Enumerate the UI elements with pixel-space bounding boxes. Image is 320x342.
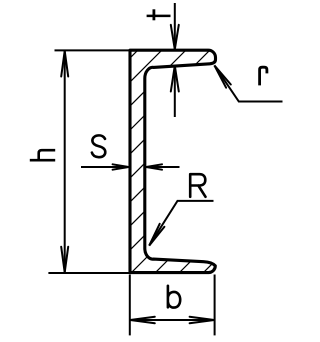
t top arrow [171, 25, 179, 50]
label b (drawn strokes) [168, 286, 180, 308]
label R (drawn strokes) [190, 174, 205, 197]
b right extension line [214, 275, 216, 336]
hatching [0, 40, 320, 285]
b right arrow [190, 317, 215, 323]
label S (drawn strokes) [92, 135, 105, 157]
r leader arrow [214, 65, 230, 87]
S right dimension line [146, 166, 179, 168]
r leader [214, 65, 282, 101]
top extension line [55, 49, 131, 51]
S right arrow [146, 164, 162, 169]
h dimension line [64, 50, 66, 273]
t lower dimension line [174, 66, 176, 117]
S left arrow [113, 164, 129, 169]
bottom extension line [48, 272, 133, 274]
h bottom arrow [61, 247, 68, 273]
t bottom arrow [171, 66, 179, 92]
b left arrow [130, 317, 155, 323]
b left extension line [129, 275, 131, 336]
label r (drawn strokes) [260, 67, 267, 85]
S left dimension line [81, 166, 128, 168]
label h (rotated, drawn strokes) [30, 150, 55, 160]
thin dimension lines [48, 3, 282, 335]
t upper dimension line [174, 3, 176, 49]
R leader arrow [149, 224, 164, 246]
arrows (open V style) [61, 25, 231, 323]
channel section outline [130, 50, 216, 272]
h top arrow [61, 51, 68, 77]
b dimension line [130, 319, 215, 321]
R leader [149, 201, 213, 246]
label t (drawn strokes) [147, 9, 171, 20]
